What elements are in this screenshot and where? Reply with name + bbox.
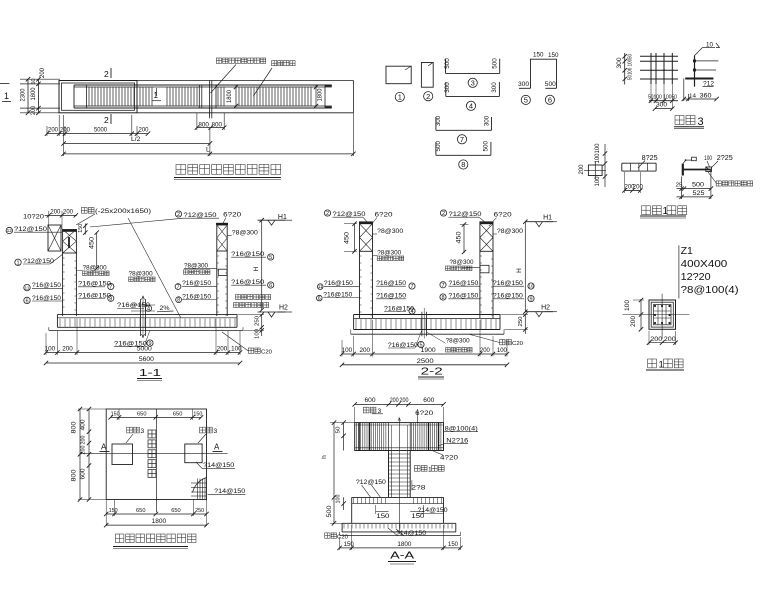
- svg-text:200: 200: [139, 127, 149, 134]
- section A-A footing inner dims 150 150: [376, 511, 389, 513]
- section A-A column in-cap verticals: [388, 423, 390, 451]
- side view anchor bars: [695, 60, 719, 62]
- svg-text:2: 2: [177, 212, 180, 218]
- svg-text:650: 650: [137, 412, 147, 418]
- svg-text:C20: C20: [512, 341, 523, 347]
- side view bottom thick bar: [685, 78, 713, 80]
- section 2-2 inner right ?16@150 bubble 7: [440, 282, 446, 288]
- part 1 side view plate: [682, 164, 684, 176]
- detail 8 bracket with 500 labels: [436, 154, 491, 156]
- svg-text:H1: H1: [543, 215, 552, 222]
- side view dim 14 360: [683, 79, 685, 102]
- svg-text:200: 200: [400, 398, 410, 404]
- svg-text:C20: C20: [337, 534, 348, 540]
- svg-text:50100 10050: 50100 10050: [628, 54, 634, 80]
- svg-text:200: 200: [48, 127, 58, 134]
- section 1-1 dims 150 450 at left wall: [84, 224, 86, 235]
- svg-text:300: 300: [616, 57, 623, 69]
- plan bottom dimension row 200 200 5000 200: [47, 133, 148, 135]
- svg-text:?8@300: ?8@300: [377, 228, 403, 235]
- detail 2 rectangle: [421, 63, 433, 88]
- svg-text:?8@300: ?8@300: [497, 228, 523, 235]
- svg-text:5600: 5600: [139, 356, 155, 363]
- svg-text:400X400: 400X400: [681, 258, 728, 270]
- section 2-2 right wall plate: [479, 221, 493, 223]
- svg-text:?14@150: ?14@150: [203, 462, 234, 469]
- section 2-2 total dim 2500: [342, 364, 507, 366]
- svg-text:25: 25: [676, 183, 683, 189]
- svg-text:100: 100: [342, 347, 353, 354]
- svg-text:500: 500: [444, 58, 451, 69]
- svg-text:Z1: Z1: [681, 245, 693, 257]
- svg-text:5: 5: [524, 96, 528, 105]
- svg-text:250: 250: [255, 316, 261, 326]
- svg-text:1800: 1800: [318, 88, 324, 102]
- svg-text:12?20: 12?20: [681, 271, 711, 283]
- plan title: escalator plan layout: [176, 165, 186, 175]
- svg-text:200: 200: [650, 336, 663, 343]
- svg-text:7: 7: [410, 284, 413, 290]
- svg-text:500: 500: [692, 182, 704, 189]
- plan internal dim 1800 (left of support): [235, 85, 237, 107]
- svg-text:800: 800: [72, 469, 78, 482]
- svg-text:2: 2: [426, 92, 430, 101]
- svg-text:450: 450: [457, 231, 463, 244]
- section 1-1 right wall hatched column: [217, 225, 227, 251]
- section A-A cap thick studs: [358, 423, 360, 451]
- section 1-1 left wall: [62, 253, 64, 316]
- embedded plate 3 side view plate line: [694, 56, 696, 87]
- section 2-2 left wall hatched column: [360, 224, 373, 252]
- svg-text:6: 6: [25, 298, 28, 304]
- svg-text:100: 100: [704, 155, 712, 162]
- svg-text:A: A: [101, 443, 107, 452]
- part 1 side view anchor rod: [683, 169, 711, 171]
- svg-text:?16@150: ?16@150: [324, 280, 353, 287]
- svg-text:7: 7: [441, 283, 444, 289]
- svg-text:200: 200: [31, 105, 37, 115]
- column Z1 left dims 100 200: [640, 299, 642, 330]
- section 2-2 H vertical dim: [524, 222, 526, 312]
- svg-text:150: 150: [533, 52, 544, 59]
- mesh left dimension 300 with 50 100 100 50: [624, 53, 626, 85]
- svg-text:450: 450: [90, 236, 96, 249]
- section 1-1 H1 level symbol: [258, 219, 286, 221]
- svg-text:7: 7: [460, 135, 464, 144]
- detail 3 bracket with 500 labels: [446, 72, 500, 74]
- label weld anchor note: [716, 181, 721, 186]
- plan internal dim 1800 (right end): [315, 85, 317, 107]
- svg-text:100: 100: [497, 347, 508, 354]
- section 1-1 top-left dims 200 200: [45, 214, 77, 216]
- section A-A left dims: [343, 423, 345, 451]
- svg-text:400: 400: [81, 419, 87, 431]
- svg-text:2-2: 2-2: [421, 366, 443, 378]
- svg-text:?8@300: ?8@300: [446, 338, 470, 345]
- section 1-1 H2 level symbol: [258, 311, 286, 313]
- leader label: escalator middle support foundation: [216, 58, 221, 63]
- title: embedded part 3: [675, 116, 684, 125]
- svg-text:2?25: 2?25: [717, 155, 733, 162]
- svg-text:150: 150: [448, 542, 459, 548]
- section 1-1 right dims 250 100: [261, 315, 263, 336]
- svg-text:11: 11: [25, 285, 30, 291]
- support foundation section line A-A horizontal: [81, 452, 228, 454]
- svg-text:650: 650: [171, 508, 181, 514]
- svg-text:200: 200: [81, 436, 87, 445]
- detail 4 bubble: [466, 101, 475, 110]
- detail 5-6 step shape: [531, 59, 557, 88]
- svg-text:3: 3: [471, 79, 475, 88]
- svg-text:2300: 2300: [20, 88, 27, 101]
- escalator step rungs: [88, 87, 90, 106]
- svg-text:300: 300: [656, 102, 668, 109]
- section 1-1 right wall inner ?16@150 x2: [175, 284, 181, 290]
- svg-text:H2: H2: [279, 305, 288, 312]
- svg-text:2: 2: [442, 211, 445, 217]
- svg-text:100: 100: [595, 153, 601, 164]
- svg-text:6: 6: [548, 96, 552, 105]
- section 2-2 right dim 250: [524, 315, 526, 335]
- svg-text:1800: 1800: [397, 541, 412, 548]
- dimension line L: [64, 153, 354, 155]
- svg-text:8: 8: [441, 295, 444, 301]
- section 1-1 right wall: [216, 251, 218, 316]
- svg-text:?8@300: ?8@300: [232, 229, 258, 236]
- svg-text:9: 9: [529, 296, 532, 302]
- svg-text:600: 600: [81, 468, 87, 480]
- section A-A base slab: [342, 522, 456, 524]
- svg-text:200: 200: [664, 336, 677, 343]
- section 2-2 dim 450 right wall: [463, 224, 465, 253]
- svg-text:450: 450: [345, 231, 351, 244]
- svg-text:200: 200: [579, 164, 585, 175]
- section 1-1 right wall embedded plate: [216, 223, 228, 225]
- section A-A column: [388, 451, 390, 498]
- svg-text:3: 3: [698, 116, 704, 128]
- svg-text:1: 1: [663, 206, 669, 217]
- support foundation right plate: [185, 444, 202, 463]
- detail 5 bubble: [521, 95, 530, 104]
- section A-A footing outline: [352, 496, 444, 498]
- section 2-2 left outside labels ?16@150: [317, 284, 323, 290]
- section 2-2 lean concrete line: [351, 333, 504, 335]
- section 1-1 H vertical dim: [261, 220, 263, 310]
- svg-text:10: 10: [706, 42, 713, 49]
- svg-text:150: 150: [548, 52, 559, 59]
- dimension line L/2: [63, 115, 65, 156]
- support foundation inner top dim 150 650 650 150: [111, 416, 201, 418]
- embedded part 1 plan small rect: [588, 165, 602, 176]
- svg-text:150: 150: [344, 542, 355, 548]
- section 1-1 slab rebar ticks: [59, 319, 61, 327]
- svg-text:1: 1: [16, 260, 19, 266]
- section A-A footing top rebar ticks: [353, 498, 355, 504]
- svg-text:200: 200: [50, 209, 61, 216]
- svg-text:2500: 2500: [417, 358, 435, 365]
- section 1-1 left wall embedded plate: [62, 230, 77, 232]
- svg-text:L/2: L/2: [131, 136, 141, 143]
- plan outer boundary rectangle right part: [137, 80, 354, 82]
- svg-text:300: 300: [484, 115, 491, 126]
- section 1-1 total dim 5600: [46, 362, 240, 364]
- svg-text:650: 650: [136, 508, 146, 514]
- section 2-2 lean concrete note: [500, 340, 505, 345]
- label plate 3 left with leader: [127, 427, 133, 433]
- section 1-1 left label ?16@150 bubble 11: [24, 284, 30, 290]
- support dim 800 800: [197, 127, 224, 129]
- section 2-2 right wall: [479, 251, 481, 318]
- svg-text:?8@300: ?8@300: [377, 250, 401, 257]
- svg-text:300: 300: [518, 81, 529, 88]
- svg-text:2: 2: [326, 211, 329, 217]
- svg-text:1-1: 1-1: [139, 367, 161, 379]
- svg-text:8: 8: [177, 298, 180, 304]
- section A-A bottom dims 150 1800 150: [340, 547, 461, 549]
- part 1 hook symbol top: [692, 157, 697, 161]
- section 1-1 lean concrete note: [248, 348, 253, 353]
- svg-text:?8@100(4): ?8@100(4): [681, 284, 739, 296]
- svg-text:150: 150: [193, 412, 202, 418]
- svg-text:?8@300: ?8@300: [450, 259, 474, 266]
- svg-text:500: 500: [491, 58, 498, 69]
- section A-A lean concrete note: [325, 533, 330, 538]
- svg-text:4: 4: [469, 102, 473, 111]
- section 1-1 top label ?12@150 bubble 2: [175, 211, 181, 217]
- detail 7 bracket with 300 labels: [436, 129, 492, 131]
- svg-text:800: 800: [72, 421, 78, 434]
- svg-text:200: 200: [39, 68, 46, 78]
- column Z1 leader line: [678, 245, 680, 298]
- detail 7 bubble: [457, 135, 466, 144]
- svg-text:L: L: [206, 147, 210, 154]
- section 1-1 lean concrete line: [49, 329, 243, 331]
- detail 8 bubble: [459, 160, 468, 169]
- svg-text:6: 6: [269, 283, 272, 289]
- section A-A cap hatch left: [356, 423, 358, 450]
- section 1-1 pit floor lines: [57, 314, 237, 316]
- svg-text:6?20: 6?20: [375, 212, 393, 219]
- svg-text:6?20: 6?20: [223, 212, 241, 219]
- mesh bottom dimension 50 100 100 50 / 300: [649, 100, 678, 102]
- svg-text:?14@150: ?14@150: [214, 488, 245, 495]
- detail 1 rectangle: [386, 66, 411, 84]
- svg-text:8: 8: [461, 160, 465, 169]
- svg-text:7: 7: [177, 284, 180, 290]
- svg-text:?16@150: ?16@150: [323, 291, 352, 298]
- pit outer wall rectangle: [59, 81, 137, 113]
- section 2-2 inner right ?16@150 row2: [440, 294, 446, 300]
- svg-text:8: 8: [109, 296, 112, 302]
- svg-text:1: 1: [4, 91, 9, 101]
- truss right end: [324, 85, 326, 108]
- embedded plate 3 mesh vertical bars: [650, 53, 652, 85]
- svg-text:2?8: 2?8: [411, 485, 425, 492]
- section 2-2 dim 450 left wall: [354, 224, 356, 252]
- detail 3 bubble: [468, 78, 477, 87]
- svg-text:3: 3: [141, 428, 145, 435]
- svg-text:200: 200: [81, 446, 87, 455]
- svg-text:?8@300: ?8@300: [83, 265, 107, 272]
- svg-text:?8@300: ?8@300: [129, 271, 153, 278]
- part 1 side dims 25 500 525: [681, 177, 683, 200]
- svg-text:200: 200: [631, 315, 637, 327]
- middle support columns in plan: [198, 85, 200, 108]
- section 2-2 top left label ?12@150 bubble 2: [324, 210, 330, 216]
- section A-A label plate3: [363, 407, 369, 413]
- svg-text:200: 200: [480, 347, 491, 354]
- support foundation left dims outer 800 800: [79, 409, 81, 500]
- svg-text:10: 10: [529, 284, 534, 289]
- svg-text:6: 6: [318, 296, 321, 302]
- svg-text:100: 100: [625, 299, 631, 311]
- svg-text:?12@150: ?12@150: [356, 479, 386, 486]
- svg-text:6?20: 6?20: [415, 410, 433, 417]
- svg-text:5000: 5000: [94, 127, 107, 134]
- support foundation center vertical line: [156, 409, 158, 512]
- svg-text:150: 150: [109, 508, 118, 514]
- svg-text:800: 800: [198, 122, 209, 129]
- embedded plate 3 mesh horizontal bars: [640, 55, 678, 57]
- side view weld leader and 10 label: [695, 48, 703, 56]
- svg-text:500: 500: [327, 505, 333, 518]
- svg-text:360: 360: [700, 93, 712, 100]
- section 1-1 bottom slab outline: [56, 315, 58, 328]
- svg-text:250: 250: [195, 508, 204, 514]
- svg-text:5: 5: [269, 255, 272, 261]
- svg-text:h: h: [321, 455, 328, 459]
- detail 4 bracket with 300 labels: [446, 95, 500, 97]
- section 1-1 bottom dims 100 200 5000 200 100: [46, 352, 240, 354]
- svg-text:150: 150: [78, 224, 84, 233]
- column Z1 section square: [649, 300, 676, 329]
- section 2-2 H1 level symbol: [525, 221, 553, 223]
- svg-text:12: 12: [7, 228, 13, 234]
- support foundation total dim 1800: [106, 524, 206, 526]
- svg-text:300: 300: [435, 115, 442, 126]
- svg-text:800: 800: [212, 122, 223, 129]
- svg-text:1800: 1800: [152, 518, 167, 525]
- svg-text:(-25x200x1650): (-25x200x1650): [95, 208, 151, 215]
- svg-text:2: 2: [104, 115, 109, 125]
- section A-A lean concrete line: [340, 535, 461, 537]
- svg-text:100: 100: [595, 143, 601, 154]
- svg-text:150: 150: [111, 412, 120, 418]
- svg-text:3: 3: [214, 428, 218, 435]
- section 1-1 long diagonal leader: [128, 218, 181, 318]
- support foundation left plate: [112, 444, 133, 465]
- svg-text:200: 200: [63, 209, 74, 216]
- svg-text:150: 150: [376, 513, 389, 520]
- support foundation vertical center text: [148, 430, 156, 438]
- svg-text:H2: H2: [541, 304, 550, 311]
- svg-text:1: 1: [659, 360, 664, 371]
- svg-text:200: 200: [390, 398, 400, 404]
- svg-text:7: 7: [109, 284, 112, 290]
- svg-text:100: 100: [45, 346, 56, 353]
- truss left end verticals: [73, 85, 75, 108]
- svg-text:500: 500: [435, 140, 442, 151]
- detail 6 bubble: [545, 95, 554, 104]
- embedded part 1 bar elevation: [622, 162, 656, 164]
- section 2-2 right wall hatched column: [480, 224, 493, 252]
- section 1-1 left wall hatched column: [63, 230, 77, 254]
- column Z1 bottom dim 200 200: [649, 342, 676, 344]
- svg-text:1: 1: [398, 93, 402, 102]
- section 2-2 H2 level symbol: [525, 311, 553, 313]
- svg-text:50: 50: [336, 427, 342, 434]
- svg-text:200: 200: [633, 185, 644, 191]
- leader label: escalator (auto-fudi): [272, 61, 277, 66]
- svg-text:H: H: [516, 268, 523, 273]
- support foundation left dims inner 400 200 200 600: [88, 409, 90, 500]
- svg-text:525: 525: [693, 190, 705, 197]
- support foundation bottom dims 150 650 650 250: [106, 513, 206, 515]
- section 2-2 top right label ?12@150 bubble 2: [440, 210, 446, 216]
- svg-text:A-A: A-A: [390, 550, 414, 562]
- svg-text:2: 2: [104, 69, 109, 79]
- svg-text:100: 100: [336, 495, 342, 504]
- section 1-1 right wall blockout rect: [218, 269, 227, 275]
- svg-text:300: 300: [444, 82, 451, 93]
- section 2-2 right wall blockout rect: [480, 265, 489, 273]
- section A-A column centerline: [398, 418, 400, 534]
- escalator truss top chords: [74, 84, 332, 86]
- svg-text:?16@150: ?16@150: [182, 280, 211, 287]
- bar elevation dim 200 200: [625, 190, 641, 192]
- svg-text:A: A: [214, 443, 220, 452]
- column Z1 title: [648, 359, 657, 368]
- svg-text:300: 300: [491, 82, 498, 93]
- section 2-2 left wall plate: [359, 221, 373, 223]
- svg-text:1: 1: [154, 91, 159, 100]
- section 2-2 bottom dims 100 200 1900 200 100: [342, 353, 507, 355]
- section 1-1 left label ?16@150 bubble 6: [24, 297, 30, 303]
- svg-text:50100 10050: 50100 10050: [648, 95, 677, 101]
- svg-text:4: 4: [410, 309, 413, 315]
- column Z1 centerlines: [622, 314, 689, 316]
- plan left vertical dimension lines: [27, 79, 29, 113]
- svg-text:2%: 2%: [160, 305, 170, 312]
- support foundation square outline: [106, 409, 206, 500]
- svg-text:14: 14: [689, 94, 697, 100]
- detail 2 bubble: [424, 92, 433, 101]
- section 1-1 center sump lines: [140, 299, 142, 336]
- label plate 3 right with leader: [200, 427, 206, 433]
- svg-text:H: H: [253, 266, 260, 271]
- svg-text:1900: 1900: [421, 347, 437, 354]
- section 2-2 left wall: [359, 251, 361, 318]
- section 1-1 floor slope mark 2%: [157, 310, 174, 313]
- svg-text:?16@150: ?16@150: [32, 282, 61, 289]
- svg-text:8?25: 8?25: [642, 155, 658, 162]
- svg-text:650: 650: [173, 412, 183, 418]
- section A-A cap hatch right: [411, 423, 413, 450]
- title: embedded part 1 detail: [642, 206, 651, 215]
- detail 1 bubble: [395, 92, 404, 101]
- section 2-2 bottom slab outline: [353, 315, 355, 330]
- svg-text:200: 200: [60, 127, 70, 134]
- corner fan hatch quarter circle: [193, 478, 207, 493]
- svg-text:1800: 1800: [227, 89, 233, 103]
- svg-text:10?20: 10?20: [23, 214, 44, 221]
- svg-text:600: 600: [365, 397, 377, 404]
- section A-A cap beam outline: [355, 423, 444, 451]
- section 1-1 embedded plate label: [81, 208, 87, 214]
- support foundation title: [115, 534, 123, 542]
- svg-text:200: 200: [217, 346, 228, 353]
- escalator truss bottom chords: [74, 105, 332, 107]
